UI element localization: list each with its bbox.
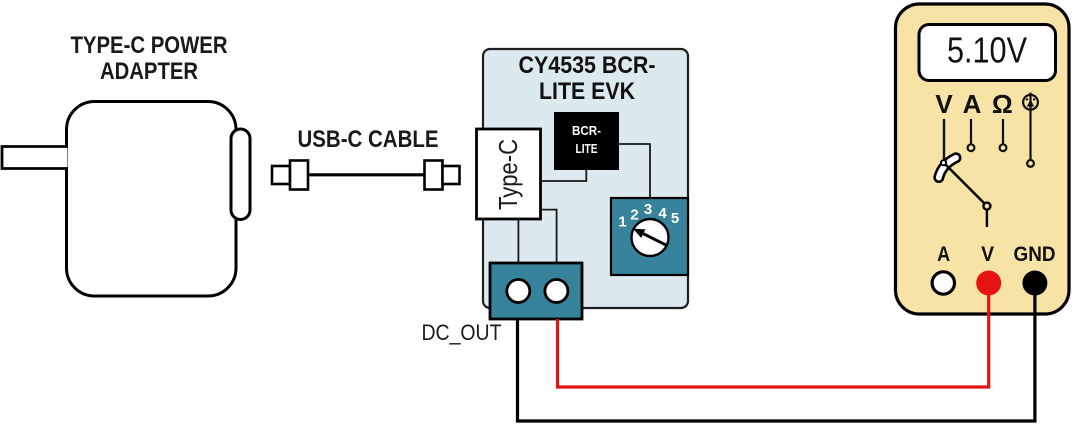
svg-text:CY4535 BCR-: CY4535 BCR- [519,52,656,79]
svg-text:BCR-: BCR- [572,124,601,138]
adapter output connector [231,129,250,220]
svg-text:USB-C CABLE: USB-C CABLE [298,126,439,153]
switch arm [946,165,985,204]
svg-text:V: V [981,243,994,266]
adapter AC plug prong [2,147,68,169]
dial position numbers [618,201,679,231]
svg-text:5.10V: 5.10V [947,29,1027,70]
wire Type-C to DC_OUT right [541,210,557,263]
switch center contact [983,203,990,210]
V contact stem [943,119,945,161]
multimeter body [896,4,1070,314]
svg-text:4: 4 [658,205,667,222]
DC_OUT connector block [490,263,582,319]
svg-text:V: V [935,89,953,119]
continuity contact stem [1027,113,1034,167]
svg-text:GND: GND [1014,243,1056,266]
rotary switch box [611,198,688,275]
svg-text:Type-C: Type-C [493,139,523,210]
power adapter body [67,102,237,297]
svg-text:LITE: LITE [576,142,598,156]
ohm contact stem [1000,119,1007,151]
A contact stem [968,119,975,151]
DC_OUT terminal left [507,280,530,303]
wire Type-C to BCR-LITE [541,170,587,181]
dial pointer [633,229,666,246]
svg-text:1: 1 [618,214,626,231]
svg-text:TYPE-C POWER: TYPE-C POWER [71,32,228,59]
multimeter display [919,25,1056,81]
usb-c cable right plug [425,161,460,190]
terminal V jack [976,271,1001,296]
svg-text:A: A [963,89,982,119]
svg-text:ADAPTER: ADAPTER [100,58,198,85]
svg-text:LITE EVK: LITE EVK [539,78,636,105]
svg-text:3: 3 [644,201,652,218]
BCR-LITE IC [554,112,619,170]
svg-text:5: 5 [671,210,679,227]
svg-text:Ω: Ω [992,89,1013,119]
usb-c cable left plug [272,161,308,190]
label TYPE-C POWER ADAPTER [71,32,228,85]
svg-text:2: 2 [630,207,638,224]
EVK title [519,52,656,105]
red probe wire [558,293,989,387]
wire BCR-LITE to rotary switch [619,144,650,198]
EVK board CY4535 [483,49,688,308]
Type-C connector box [477,129,541,219]
terminal A jack [932,272,954,294]
rotary dial [632,219,669,256]
usb-c cable cord [308,173,425,176]
svg-text:A: A [937,243,950,266]
selector lever [939,158,956,178]
lever pivot hole [941,160,946,165]
svg-text:DC_OUT: DC_OUT [422,320,502,345]
DC_OUT terminal right [545,280,568,303]
black probe wire [518,293,1035,421]
wire Type-C to DC_OUT left [517,219,519,263]
continuity symbol [1023,93,1038,113]
terminal GND jack [1022,271,1047,296]
switch handle stub [986,210,988,227]
